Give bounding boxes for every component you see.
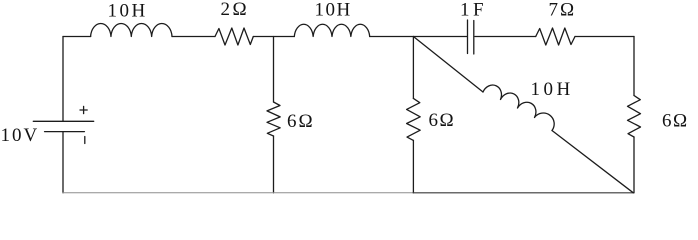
svg-text:1F: 1F [460, 0, 487, 21]
svg-text:2Ω: 2Ω [221, 0, 250, 20]
svg-text:10H: 10H [315, 0, 352, 21]
svg-text:6Ω: 6Ω [662, 111, 689, 132]
svg-text:10H: 10H [108, 1, 148, 22]
svg-text:6Ω: 6Ω [429, 110, 456, 131]
svg-text:6Ω: 6Ω [287, 111, 315, 132]
svg-text:10V: 10V [1, 125, 40, 146]
svg-text:10H: 10H [531, 79, 574, 100]
svg-text:7Ω: 7Ω [549, 0, 577, 21]
